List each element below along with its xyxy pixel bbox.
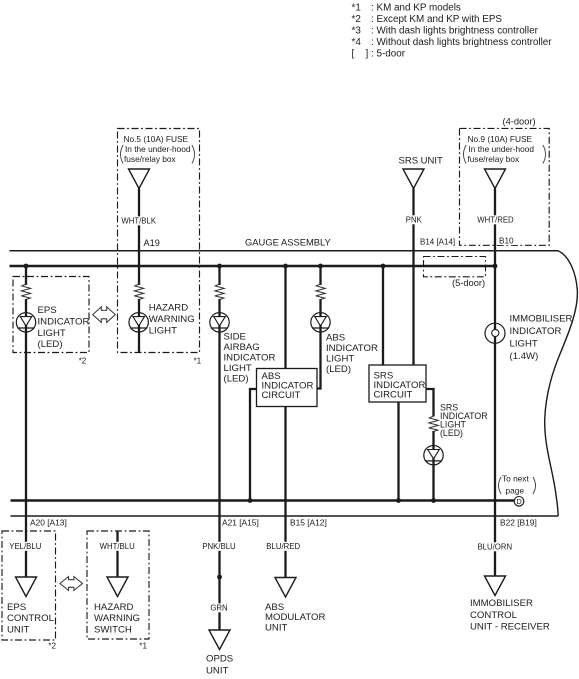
svg-text:*2: *2: [48, 642, 56, 651]
immobiliser control unit connector triangle: [485, 576, 506, 596]
option box (5-door) on bus: [424, 257, 486, 277]
wire label WHT/BLK: [121, 216, 156, 225]
wire label PNK: [405, 215, 422, 224]
svg-text:In the under-hood: In the under-hood: [125, 144, 191, 154]
svg-text:HAZARD: HAZARD: [94, 602, 134, 613]
svg-text:BLU/ORN: BLU/ORN: [477, 543, 512, 552]
svg-text:HAZARD: HAZARD: [149, 303, 189, 314]
svg-text:LIGHT: LIGHT: [224, 363, 252, 374]
wire SRS circuit to SRS indicator light: [426, 389, 434, 417]
svg-text:*1: *1: [194, 357, 202, 366]
label IMMOBILISER INDICATOR LIGHT (1.4W): [510, 313, 573, 362]
gauge assembly bottom boundary line: [11, 515, 559, 517]
svg-text:*2: *2: [352, 14, 361, 25]
svg-text:(LED): (LED): [224, 374, 249, 385]
wire WHT/BLK fuse No.5 to A19: [138, 189, 140, 286]
svg-text:INDICATOR: INDICATOR: [224, 353, 276, 364]
pin label B10: [497, 236, 517, 246]
svg-text:UNIT: UNIT: [206, 666, 229, 677]
wire SRS indicator light to bottom bus: [432, 431, 434, 501]
svg-text:IMMOBILISER: IMMOBILISER: [510, 313, 573, 324]
wire EPS indicator column upper: [25, 266, 27, 285]
svg-text:*1: *1: [139, 642, 147, 651]
svg-text:: KM and KP models: : KM and KP models: [371, 3, 461, 14]
wire side airbag indicator upper: [218, 266, 220, 285]
side airbag indicator LED lamp: [210, 313, 229, 332]
variant double arrow (indicator lights): [93, 307, 116, 323]
resistor (hazard warning light): [134, 284, 143, 300]
svg-text:: With dash lights brightness: : With dash lights brightness controller: [371, 26, 539, 37]
svg-text:INDICATOR: INDICATOR: [326, 343, 378, 354]
svg-text:]: ]: [366, 49, 369, 60]
ABS indicator LED lamp: [311, 313, 330, 332]
resistor (side airbag indicator): [215, 284, 224, 300]
svg-text:(4-door): (4-door): [503, 116, 536, 126]
svg-text:GAUGE ASSEMBLY: GAUGE ASSEMBLY: [245, 237, 332, 248]
node D to next page: [499, 474, 536, 507]
SRS unit connector triangle: [403, 169, 424, 189]
resistor (ABS indicator light): [316, 284, 325, 300]
label EPS INDICATOR LIGHT (LED): [38, 305, 90, 350]
wire label BLU/RED: [266, 542, 300, 551]
svg-text:SIDE: SIDE: [224, 332, 246, 343]
svg-text:*4: *4: [352, 37, 362, 48]
label SIDE AIRBAG INDICATOR LIGHT (LED): [224, 332, 276, 385]
wire EPS indicator column lower: [25, 299, 27, 578]
pin label A20 [A13]: [30, 518, 67, 528]
svg-text:D: D: [516, 497, 521, 506]
junction node bottom bus / ABS circuit left leg: [248, 498, 253, 503]
splice node PNK/BLU - GRN: [217, 575, 222, 580]
svg-text:CIRCUIT: CIRCUIT: [374, 390, 413, 401]
svg-text:BLU/RED: BLU/RED: [266, 542, 300, 551]
No.9 fuse connector triangle: [485, 169, 506, 189]
svg-text:PNK/BLU: PNK/BLU: [202, 542, 236, 551]
label ABS INDICATOR LIGHT (LED): [326, 333, 378, 376]
label (5-door): [452, 278, 485, 288]
wire ABS indicator light to circuit box: [316, 299, 321, 389]
label No.9 (10A) FUSE in the under-hood fuse/relay box: [464, 134, 546, 164]
svg-text:SRS UNIT: SRS UNIT: [399, 156, 444, 167]
label SRS UNIT: [399, 156, 444, 167]
No.5 fuse connector triangle: [129, 169, 150, 189]
junction node bus / immobiliser light: [493, 264, 498, 269]
svg-text:: 5-door: : 5-door: [371, 49, 406, 60]
hazard warning LED lamp: [129, 313, 148, 332]
svg-text:WHT/BLK: WHT/BLK: [121, 217, 156, 226]
svg-text:: Without dash lights brightne: : Without dash lights brightness control…: [371, 37, 552, 48]
svg-text:A19: A19: [144, 238, 160, 248]
svg-text:B14 [A14]: B14 [A14]: [420, 238, 455, 247]
svg-text:GRN: GRN: [210, 604, 227, 613]
option box No.9 fuse (4-door): [460, 128, 550, 245]
label (4-door): [503, 116, 536, 126]
svg-text:(LED): (LED): [326, 364, 351, 375]
ABS modulator unit connector triangle: [275, 578, 296, 598]
svg-text:(5-door): (5-door): [452, 278, 485, 288]
svg-text:CONTROL: CONTROL: [7, 613, 55, 624]
junction node bus / side airbag indicator: [217, 264, 222, 269]
legend note [ ] 5-door: [352, 49, 406, 60]
legend note *2: [352, 14, 503, 25]
pin label A19: [144, 238, 160, 248]
wire label PNK/BLU: [202, 542, 236, 551]
svg-text:No.9 (10A) FUSE: No.9 (10A) FUSE: [468, 134, 533, 144]
svg-text:*1: *1: [352, 3, 362, 14]
junction node bus / SRS indicator circuit: [381, 264, 386, 269]
svg-text:INDICATOR: INDICATOR: [38, 316, 90, 327]
svg-text:LIGHT: LIGHT: [38, 328, 66, 339]
svg-text:*2: *2: [79, 357, 87, 366]
svg-text:B15 [A12]: B15 [A12]: [290, 518, 327, 528]
option box *1 hazard warning switch: [87, 531, 149, 651]
wire WHT/BLU hazard switch: [116, 531, 118, 578]
bottom bus wire to next page D: [11, 499, 515, 501]
wire ABS indicator light upper: [319, 266, 321, 285]
pin label A21 [A15]: [222, 518, 259, 528]
wire label BLU/ORN: [477, 542, 512, 551]
wire label WHT/RED: [477, 215, 514, 224]
option box *2 EPS indicator light: [13, 277, 89, 366]
junction node bus / EPS indicator: [24, 264, 29, 269]
immobiliser indicator bulb (1.4W): [485, 323, 505, 343]
svg-text:WARNING: WARNING: [94, 613, 140, 624]
option box *1 No.5 fuse + hazard warning light: [118, 129, 202, 366]
junction node bottom bus / SRS circuit: [396, 498, 401, 503]
gauge assembly wavy right edge: [545, 251, 578, 516]
hazard warning switch connector triangle: [107, 577, 128, 597]
svg-text:No.5 (10A) FUSE: No.5 (10A) FUSE: [124, 134, 189, 144]
svg-text:*3: *3: [352, 26, 362, 37]
label ABS MODULATOR UNIT: [265, 602, 325, 634]
label No.5 (10A) FUSE in the under-hood fuse/relay box: [121, 134, 195, 164]
label GAUGE ASSEMBLY: [245, 237, 332, 248]
svg-text:In the under-hood: In the under-hood: [469, 144, 535, 154]
label OPDS UNIT: [206, 654, 233, 677]
legend note *3: [352, 26, 539, 37]
svg-text:UNIT: UNIT: [265, 623, 288, 634]
svg-text:PNK: PNK: [406, 216, 423, 225]
wire ABS indicator circuit left leg to bottom bus: [250, 389, 257, 501]
svg-text:WHT/BLU: WHT/BLU: [100, 542, 135, 551]
wire label WHT/BLU: [100, 542, 135, 551]
legend note *4: [352, 37, 553, 48]
legend note *1: [352, 3, 461, 14]
svg-text:(1.4W): (1.4W): [510, 351, 539, 362]
svg-text:fuse/relay box: fuse/relay box: [124, 154, 177, 164]
variant double arrow (control unit / switch): [60, 577, 83, 591]
svg-text:IMMOBILISER: IMMOBILISER: [470, 598, 533, 609]
wire ABS indicator circuit main column B15: [284, 266, 286, 578]
svg-text:UNIT: UNIT: [7, 625, 30, 636]
wire label GRN: [210, 603, 227, 612]
option box *2 EPS control unit: [2, 531, 56, 651]
label SRS INDICATOR LIGHT (LED): [440, 402, 488, 438]
junction node bus / ABS indicator light: [318, 264, 323, 269]
top power bus wire: [10, 265, 497, 267]
OPDS unit connector triangle: [209, 630, 230, 650]
wire WHT/RED B10 / immobiliser / BLU/ORN B22: [494, 189, 496, 578]
ABS indicator circuit box U-ABS: [257, 369, 318, 407]
resistor (SRS indicator light): [429, 416, 438, 432]
svg-text:WHT/RED: WHT/RED: [477, 216, 514, 225]
svg-text:To next: To next: [502, 474, 529, 484]
svg-text:AIRBAG: AIRBAG: [224, 342, 260, 353]
wire bus to SRS indicator circuit: [382, 266, 384, 366]
svg-text:CIRCUIT: CIRCUIT: [262, 390, 301, 401]
svg-text:A21 [A15]: A21 [A15]: [222, 518, 259, 528]
wire PNK SRS unit to B14 and SRS circuit: [412, 189, 414, 366]
svg-text:A20 [A13]: A20 [A13]: [30, 518, 67, 528]
svg-text:UNIT - RECEIVER: UNIT - RECEIVER: [470, 622, 550, 633]
svg-text:(LED): (LED): [440, 428, 463, 438]
svg-text:EPS: EPS: [38, 305, 57, 316]
SRS indicator LED lamp: [424, 446, 443, 465]
svg-text:CONTROL: CONTROL: [470, 610, 518, 621]
svg-text:EPS: EPS: [7, 602, 26, 613]
svg-text:YEL/BLU: YEL/BLU: [9, 542, 41, 551]
gauge assembly top boundary line: [10, 250, 559, 252]
svg-text:LIGHT: LIGHT: [149, 325, 177, 336]
svg-text:[: [: [352, 49, 355, 60]
svg-text:ABS: ABS: [326, 333, 345, 344]
svg-text:LIGHT: LIGHT: [510, 339, 538, 350]
junction node bus / ABS indicator circuit: [283, 264, 288, 269]
svg-text:: Except KM and KP with EPS: : Except KM and KP with EPS: [371, 14, 502, 25]
svg-text:page: page: [506, 486, 525, 496]
wire label YEL/BLU: [9, 542, 42, 551]
pin label B14 [A14]: [420, 238, 455, 247]
wire side airbag indicator / PNK/BLU / GRN to OPDS: [218, 299, 220, 631]
SRS indicator circuit box U-SRS: [369, 365, 426, 402]
label HAZARD WARNING LIGHT: [149, 303, 195, 337]
pin label B15 [A12]: [290, 518, 327, 528]
svg-text:B10: B10: [499, 237, 514, 246]
label IMMOBILISER CONTROL UNIT - RECEIVER: [470, 598, 550, 633]
svg-text:LIGHT: LIGHT: [326, 354, 354, 365]
wire hazard warning light lower: [138, 299, 140, 353]
svg-text:(LED): (LED): [38, 339, 63, 350]
svg-text:OPDS: OPDS: [206, 654, 233, 665]
label EPS CONTROL UNIT: [7, 602, 55, 636]
svg-text:fuse/relay box: fuse/relay box: [468, 154, 521, 164]
EPS indicator LED lamp: [16, 313, 35, 332]
EPS control unit connector triangle: [16, 577, 37, 597]
label HAZARD WARNING SWITCH: [94, 602, 140, 636]
pin label B22 [B19]: [500, 518, 537, 528]
resistor (EPS indicator): [21, 284, 30, 300]
svg-text:B22 [B19]: B22 [B19]: [500, 518, 537, 528]
svg-text:INDICATOR: INDICATOR: [510, 326, 562, 337]
svg-text:SWITCH: SWITCH: [94, 625, 132, 636]
junction node bottom bus / SRS indicator light: [431, 498, 436, 503]
wire SRS circuit box to bottom bus: [397, 402, 399, 501]
svg-text:WARNING: WARNING: [149, 314, 195, 325]
